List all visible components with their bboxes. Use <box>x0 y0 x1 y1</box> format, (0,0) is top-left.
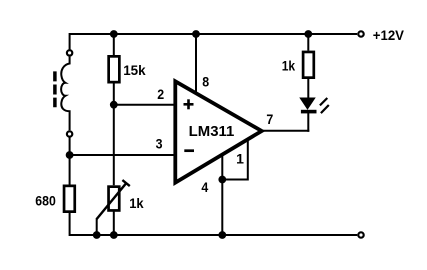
terminal coil top <box>67 50 72 55</box>
wire 15k top lead <box>113 34 115 55</box>
svg-text:1k: 1k <box>282 58 296 74</box>
wire coil bottom to node A <box>69 138 71 185</box>
terminal coil bottom <box>67 131 72 136</box>
terminal +12V <box>358 31 363 36</box>
junction top rail / pin 8 <box>192 30 200 38</box>
junction pin 4 / ground rail <box>218 231 226 239</box>
wire top supply rail <box>70 33 358 35</box>
wire pin 2 input <box>114 104 174 106</box>
op-amp U1 LM311 <box>175 81 261 182</box>
junction pot / ground rail <box>110 231 118 239</box>
wire 680 bottom lead <box>69 213 71 236</box>
svg-text:4: 4 <box>201 179 208 195</box>
wire 15k bottom lead <box>113 84 115 105</box>
wire pin 4 to ground rail <box>221 150 223 236</box>
svg-text:680: 680 <box>35 192 56 208</box>
resistor R2 15k body <box>109 56 120 82</box>
minus input symbol <box>184 149 194 152</box>
wire pin 1 strap <box>222 140 248 180</box>
wire pin 3 input <box>70 154 174 156</box>
inductor L1 (sensor coil with core) <box>55 57 70 131</box>
wire 1k top lead <box>307 34 309 51</box>
wire potentiometer riser <box>113 105 115 186</box>
node A junction (pin 3 tap) <box>66 151 74 159</box>
junction wiper / ground rail <box>93 231 101 239</box>
svg-text:1k: 1k <box>129 195 144 211</box>
wire bottom ground rail <box>70 234 358 236</box>
resistor R3 1k body <box>303 52 314 78</box>
junction pin1 / pin4 <box>218 176 226 184</box>
svg-text:8: 8 <box>202 74 209 90</box>
wire pot bottom lead <box>113 212 115 237</box>
plus input symbol <box>184 99 194 109</box>
svg-text:7: 7 <box>266 111 273 127</box>
svg-text:15k: 15k <box>123 62 146 78</box>
junction pin 2 node <box>110 101 118 109</box>
svg-text:1: 1 <box>236 150 244 166</box>
svg-text:LM311: LM311 <box>189 124 235 140</box>
LED D1 <box>300 98 329 113</box>
junction top rail / 15k <box>110 30 118 38</box>
terminal bottom right <box>358 232 363 237</box>
potentiometer wiper arrow <box>97 180 130 236</box>
svg-text:+12V: +12V <box>373 28 404 43</box>
wire pin 8 supply <box>195 34 197 95</box>
junction top rail / 1k branch <box>304 30 312 38</box>
wire drop from top rail to coil top terminal <box>69 33 71 49</box>
resistor R1 680 body <box>64 186 75 212</box>
potentiometer P1 1k body <box>109 187 120 211</box>
svg-text:3: 3 <box>156 136 163 152</box>
wire LED cathode to output <box>307 113 309 132</box>
wire 1k to LED <box>307 79 309 99</box>
svg-text:2: 2 <box>157 86 164 102</box>
wire output pin 7 <box>262 130 310 132</box>
